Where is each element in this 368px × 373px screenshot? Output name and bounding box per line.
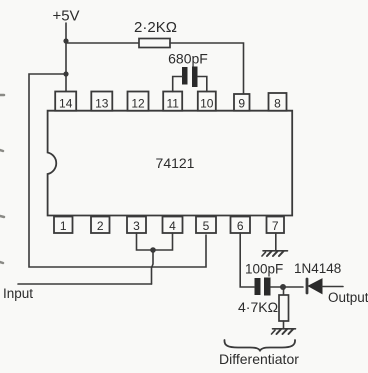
wire +5V to resistor R1: [66, 42, 139, 44]
svg-text:4·7KΩ: 4·7KΩ: [238, 299, 278, 315]
pin 1: [54, 217, 73, 234]
junction dot A (+5V to resistor): [63, 38, 68, 43]
pin 7: [267, 217, 285, 234]
svg-text:100pF: 100pF: [245, 262, 283, 277]
wire trigger junction down to input line: [152, 250, 154, 284]
resistor R2 4.7K ohm: [279, 295, 289, 321]
svg-text:6: 6: [237, 219, 244, 233]
ground G2 (below pin 7): [262, 251, 288, 256]
wire pin 3 to trigger junction: [137, 233, 154, 250]
svg-text:+5V: +5V: [52, 8, 79, 25]
wire pin 11 to capacitor C1: [173, 77, 182, 92]
pin 5: [196, 217, 216, 234]
wire node D down to resistor R2: [283, 287, 285, 295]
svg-text:1: 1: [60, 219, 67, 233]
svg-text:Output: Output: [328, 290, 368, 305]
wire resistor R1 to pin 9: [170, 43, 244, 94]
scan edge marks: [0, 95, 4, 263]
ground G1 (below R2): [272, 329, 296, 334]
resistor R1 2.2K ohm: [139, 39, 170, 48]
wire pin 6 down to capacitor C2: [240, 233, 254, 287]
capacitor C2 100pF plates: [255, 278, 271, 296]
svg-text:7: 7: [272, 219, 279, 233]
wire capacitor C2 to node D: [271, 286, 304, 288]
pin 10: [198, 92, 216, 111]
svg-text:13: 13: [95, 97, 109, 111]
svg-text:10: 10: [200, 97, 214, 111]
wire pin 4 to trigger junction: [153, 233, 173, 250]
svg-text:74121: 74121: [156, 155, 195, 171]
wire left rail +5V to pin 5: [29, 74, 206, 267]
pin 12: [128, 92, 149, 111]
wire input line: [18, 283, 152, 285]
junction dot B (+5V to left rail): [63, 71, 68, 76]
pin 6: [231, 217, 251, 234]
junction dot node D: [280, 284, 286, 290]
svg-text:2·2KΩ: 2·2KΩ: [134, 19, 177, 36]
pin 11: [163, 92, 182, 111]
pin 2: [91, 217, 110, 234]
svg-text:1N4148: 1N4148: [294, 261, 341, 276]
svg-text:9: 9: [238, 97, 245, 111]
wire diode to output: [322, 286, 343, 288]
IC U1 74121 body: [48, 111, 293, 216]
svg-text:8: 8: [274, 97, 281, 111]
brace differentiator: [224, 340, 295, 351]
capacitor C1 680pF plates: [182, 67, 198, 88]
svg-text:Input: Input: [3, 286, 33, 301]
wire resistor R2 to ground: [283, 321, 285, 329]
svg-text:3: 3: [133, 219, 140, 233]
svg-text:14: 14: [59, 97, 73, 111]
pin 8: [269, 93, 287, 111]
svg-text:5: 5: [203, 219, 210, 233]
pin 3: [127, 217, 146, 234]
svg-text:11: 11: [166, 97, 179, 111]
svg-text:Differentiator: Differentiator: [219, 351, 299, 367]
pin 4: [163, 217, 183, 234]
wire +5V vertical to pin 14: [65, 23, 67, 91]
pin 14: [55, 92, 76, 111]
pin 13: [91, 92, 112, 111]
svg-text:680pF: 680pF: [168, 51, 208, 67]
svg-text:2: 2: [97, 219, 104, 233]
junction dot trigger node: [150, 247, 156, 253]
wire pin 10 to capacitor C1: [198, 77, 207, 92]
wire pin 7 to ground: [275, 233, 277, 251]
svg-text:12: 12: [131, 97, 145, 111]
diode D1 1N4148: [294, 261, 341, 294]
pin 9: [234, 94, 250, 111]
svg-text:4: 4: [169, 219, 176, 233]
